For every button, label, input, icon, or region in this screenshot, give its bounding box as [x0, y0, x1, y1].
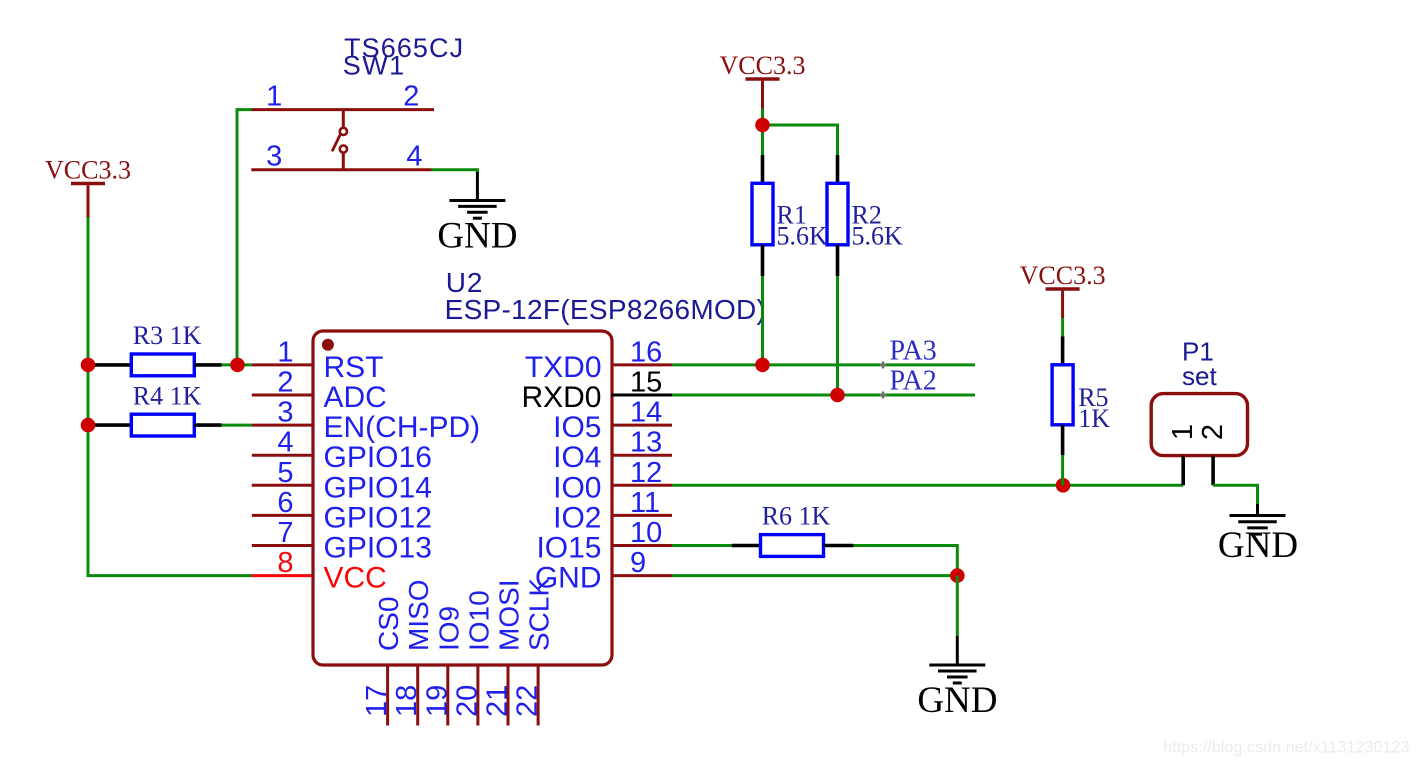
pin number 7: [277, 517, 293, 549]
pin number 2 (P1): [1197, 424, 1229, 440]
wire pin 9 GND net: [672, 574, 957, 577]
wire P1 pin 2 to ground: [1213, 485, 1257, 506]
junction node R5/IO0: [1056, 478, 1071, 493]
junction node VCC3.3/R1/R2: [755, 118, 770, 133]
label ESP-12F(ESP8266MOD): [445, 294, 767, 325]
svg-text:IO5: IO5: [553, 411, 601, 444]
wire pin 10 to R6: [672, 544, 732, 547]
label R4 1K: [133, 381, 202, 410]
svg-text:13: 13: [630, 427, 662, 459]
pin name IO15: [536, 532, 601, 565]
wire pin 22 stub: [537, 664, 540, 726]
label SW1: [343, 50, 406, 80]
svg-text:9: 9: [630, 547, 646, 579]
wire VCC3.3 left rail down to pin 8 row: [88, 217, 252, 576]
label R6 1K: [762, 501, 831, 530]
pin name ADC: [324, 381, 387, 414]
junction node VCC3.3/R3: [81, 358, 96, 373]
ground GND (bottom middle): [929, 636, 985, 683]
ground GND (switch): [449, 172, 505, 218]
svg-text:10: 10: [630, 517, 662, 549]
svg-text:IO4: IO4: [553, 441, 601, 474]
svg-text:16: 16: [630, 336, 662, 368]
pin name TXD0: [525, 351, 602, 384]
resistor R4: [94, 414, 222, 436]
label P1: [1182, 337, 1214, 367]
pin number 10: [630, 517, 662, 549]
svg-text:2: 2: [403, 81, 419, 113]
svg-text:4: 4: [277, 427, 293, 459]
svg-text:VCC: VCC: [324, 562, 387, 595]
svg-text:ESP-12F(ESP8266MOD): ESP-12F(ESP8266MOD): [445, 294, 767, 325]
connector P1 pin 1: [1181, 456, 1185, 486]
svg-text:20: 20: [451, 685, 483, 717]
svg-text:IO15: IO15: [536, 532, 601, 565]
switch pin number 1: [266, 81, 282, 113]
net label anchor PA2: [880, 392, 887, 399]
wire R1 to TXD0: [761, 276, 764, 365]
wire pin 14 stub: [611, 424, 672, 427]
pin number 17: [361, 685, 393, 717]
svg-text:8: 8: [277, 547, 293, 579]
pin name IO2: [553, 501, 601, 534]
svg-text:R3 1K: R3 1K: [133, 321, 202, 350]
svg-text:12: 12: [630, 457, 662, 489]
label 5.6K (R2): [852, 222, 904, 251]
wire VCC3.3 to R1/R2: [763, 109, 838, 156]
pin number 15: [630, 367, 662, 399]
svg-text:1K: 1K: [1078, 404, 1110, 433]
svg-text:5: 5: [277, 457, 293, 489]
pin number 6: [277, 487, 293, 519]
pin number 21: [482, 685, 514, 717]
svg-text:15: 15: [630, 367, 662, 399]
junction node pin 1 / RST: [230, 358, 245, 373]
switch pin number 3: [266, 141, 282, 173]
svg-text:GND: GND: [917, 680, 997, 721]
pin name VCC: [324, 562, 387, 595]
svg-text:PA3: PA3: [890, 336, 937, 367]
svg-text:14: 14: [630, 397, 662, 429]
wire switch pin 4 to ground: [432, 170, 478, 174]
pin name GPIO14: [324, 471, 432, 504]
svg-text:11: 11: [630, 487, 660, 519]
svg-text:1: 1: [266, 81, 282, 113]
power symbol VCC3.3 (top left): [45, 155, 131, 217]
wire R4 to pin 3: [222, 424, 252, 427]
pin number 5: [277, 457, 293, 489]
pin name MOSI: [494, 579, 525, 651]
svg-text:4: 4: [406, 141, 422, 173]
pin number 4: [277, 427, 293, 459]
pin number 22: [512, 685, 544, 717]
wire switch pin 1 to node: [237, 110, 252, 365]
svg-text:PA2: PA2: [890, 366, 937, 397]
svg-text:EN(CH-PD): EN(CH-PD): [324, 411, 481, 444]
IC U2 body: [313, 331, 612, 665]
svg-text:VCC3.3: VCC3.3: [45, 155, 131, 184]
wire R5 to IO0 net: [1061, 455, 1064, 485]
wire R2 to RXD0: [836, 276, 839, 395]
svg-text:1: 1: [1167, 424, 1199, 440]
wire pin 10 stub: [611, 544, 672, 547]
wire pin 1 stub: [252, 363, 314, 366]
svg-text:ADC: ADC: [324, 381, 387, 414]
resistor R2: [827, 155, 848, 276]
svg-text:VCC3.3: VCC3.3: [720, 51, 806, 80]
pin name MISO: [403, 579, 434, 651]
svg-text:5.6K: 5.6K: [852, 222, 904, 251]
pin number 18: [391, 685, 423, 717]
resistor R6: [732, 535, 854, 557]
svg-text:RXD0: RXD0: [521, 381, 601, 414]
svg-text:set: set: [1182, 361, 1217, 391]
wire pin 2 stub: [252, 394, 314, 397]
pin name RXD0: [521, 381, 601, 414]
junction node VCC3.3/R4: [81, 418, 96, 433]
svg-text:CS0: CS0: [373, 597, 404, 651]
wire pin 17 stub: [386, 664, 389, 726]
label R3 1K: [133, 321, 202, 350]
wire RXD0 net: [672, 394, 975, 397]
pin number 16: [630, 336, 662, 368]
svg-text:IO10: IO10: [463, 590, 494, 651]
label GND (bottom middle): [917, 680, 997, 721]
pin name GPIO13: [324, 532, 432, 565]
svg-text:GPIO16: GPIO16: [324, 441, 432, 474]
wire pin 16 stub: [611, 363, 672, 366]
pin name EN(CH-PD): [324, 411, 481, 444]
pin number 8: [277, 547, 293, 579]
pin number 3: [277, 397, 293, 429]
label GND (switch): [437, 216, 517, 257]
pin name GPIO12: [324, 501, 432, 534]
pin number 19: [421, 685, 453, 717]
label R2: [852, 201, 882, 230]
svg-text:1: 1: [277, 336, 293, 368]
pin number 20: [451, 685, 483, 717]
pin number 1 (P1): [1167, 424, 1199, 440]
svg-text:R4 1K: R4 1K: [133, 381, 202, 410]
wire pin 8 VCC stub (bright red): [252, 574, 315, 577]
wire pin 3 stub: [252, 424, 314, 427]
svg-text:SCLK: SCLK: [524, 578, 555, 651]
pin number 12: [630, 457, 662, 489]
connector P1 body: [1151, 394, 1247, 456]
switch pin number 4: [406, 141, 422, 173]
wire pin 15 stub: [611, 394, 672, 397]
pin number 2: [277, 367, 293, 399]
pin number 1: [277, 336, 293, 368]
svg-text:3: 3: [277, 397, 293, 429]
svg-text:GPIO13: GPIO13: [324, 532, 432, 565]
wire pin 9 stub: [611, 574, 672, 577]
svg-text:7: 7: [277, 517, 293, 549]
svg-text:18: 18: [391, 685, 423, 717]
pin name GPIO16: [324, 441, 432, 474]
label R1: [777, 201, 807, 230]
svg-text:2: 2: [277, 367, 293, 399]
svg-text:VCC3.3: VCC3.3: [1020, 261, 1106, 290]
pin name RST: [324, 351, 384, 384]
svg-text:19: 19: [421, 685, 453, 717]
net label PA3: [890, 336, 937, 367]
wire VCC3.3 to R5: [1061, 318, 1064, 336]
svg-text:https://blog.csdn.net/x1131230: https://blog.csdn.net/x1131230123: [1163, 739, 1409, 757]
svg-text:2: 2: [1197, 424, 1229, 440]
switch pin number 2: [403, 81, 419, 113]
label set: [1182, 361, 1217, 391]
svg-text:GND: GND: [1218, 525, 1298, 566]
wire pin 19 stub: [446, 664, 449, 726]
watermark: [1163, 739, 1409, 757]
wire pin 12 stub: [611, 484, 672, 487]
pin name IO9: [433, 606, 464, 651]
svg-text:6: 6: [277, 487, 293, 519]
svg-text:22: 22: [512, 685, 544, 717]
net label anchor PA3: [880, 361, 887, 368]
pin number 9: [630, 547, 646, 579]
label 5.6K (R1): [777, 222, 829, 251]
pin name IO4: [553, 441, 601, 474]
power symbol VCC3.3 (top middle): [720, 51, 806, 109]
label GND (P1): [1218, 525, 1298, 566]
wire pin 4 stub: [252, 454, 314, 457]
svg-text:TXD0: TXD0: [525, 351, 602, 384]
svg-text:MOSI: MOSI: [494, 579, 525, 651]
svg-text:IO9: IO9: [433, 606, 464, 651]
net label PA2: [890, 366, 937, 397]
svg-text:5.6K: 5.6K: [777, 222, 829, 251]
wire TXD0 net: [672, 363, 975, 366]
label U2: [446, 267, 483, 298]
svg-text:3: 3: [266, 141, 282, 173]
resistor R3: [94, 354, 222, 376]
switch SW1 mechanism: [333, 110, 347, 170]
wire GND net down: [956, 576, 959, 636]
pin name IO10: [463, 590, 494, 651]
switch SW1 pins 1-2 wire: [251, 108, 434, 111]
IC U2 pin-1 index dot: [322, 339, 334, 351]
wire IO0 net: [672, 484, 1183, 487]
svg-text:17: 17: [361, 685, 393, 717]
svg-text:SW1: SW1: [343, 50, 406, 80]
wire pin 11 stub: [611, 514, 672, 517]
junction node GND net: [950, 568, 965, 583]
switch SW1 pins 3-4 wire: [251, 168, 431, 171]
wire pin 7 stub: [252, 544, 314, 547]
wire pin 5 stub: [252, 484, 314, 487]
ground GND (P1): [1230, 504, 1286, 534]
junction node R2/RXD0: [830, 388, 845, 403]
connector P1 pin 2: [1211, 456, 1215, 486]
resistor R5: [1052, 337, 1073, 456]
wire pin 13 stub: [611, 454, 672, 457]
pin name IO0: [553, 471, 601, 504]
wire R6 to GND net: [854, 546, 958, 576]
svg-text:IO2: IO2: [553, 501, 601, 534]
pin name GND: [535, 562, 602, 595]
pin number 13: [630, 427, 662, 459]
svg-text:IO0: IO0: [553, 471, 601, 504]
wire pin 20 stub: [476, 664, 479, 726]
svg-text:GND: GND: [437, 216, 517, 257]
label R5: [1078, 383, 1108, 412]
wire pin 21 stub: [507, 664, 510, 726]
label 1K (R5): [1078, 404, 1110, 433]
pin name IO5: [553, 411, 601, 444]
resistor R1: [752, 155, 773, 276]
wire pin 18 stub: [416, 664, 419, 726]
svg-text:MISO: MISO: [403, 579, 434, 651]
junction node R1/TXD0: [755, 358, 770, 373]
pin number 11: [630, 487, 660, 519]
svg-text:GPIO14: GPIO14: [324, 471, 432, 504]
power symbol VCC3.3 (right): [1020, 261, 1106, 318]
pin name SCLK: [524, 578, 555, 651]
pin name CS0: [373, 597, 404, 651]
svg-text:R6 1K: R6 1K: [762, 501, 831, 530]
wire R3 to pin 1: [222, 363, 252, 366]
svg-text:GPIO12: GPIO12: [324, 501, 432, 534]
svg-text:RST: RST: [324, 351, 384, 384]
pin number 14: [630, 397, 662, 429]
wire pin 6 stub: [252, 514, 314, 517]
svg-text:21: 21: [482, 685, 514, 717]
label TS665CJ: [344, 33, 464, 63]
